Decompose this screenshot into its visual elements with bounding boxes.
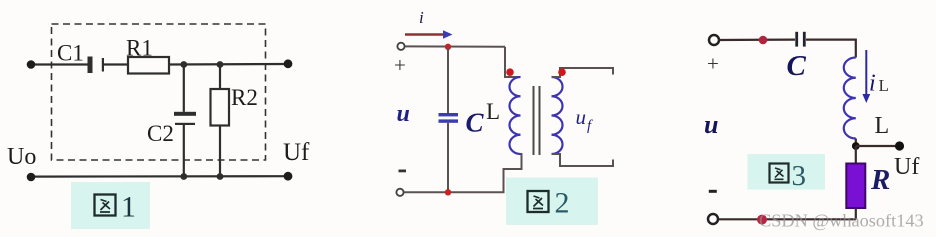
terminal bottom-left [27, 173, 36, 182]
resistor R fig3 [846, 164, 865, 209]
inductor L fig3 [844, 58, 856, 139]
label uf secondary [576, 105, 594, 134]
current arrow i [405, 30, 453, 38]
svg-text:Uf: Uf [283, 139, 310, 166]
caption glyph tu3 [770, 164, 789, 183]
wire C2 branch upper [183, 65, 185, 112]
svg-text:1: 1 [121, 191, 136, 224]
current arrow iL [862, 50, 870, 103]
svg-text:C2: C2 [147, 121, 174, 146]
svg-text:f: f [587, 118, 593, 134]
polarity dot primary (red) [506, 68, 514, 76]
wire secondary bottom [552, 154, 614, 166]
svg-text:+: + [394, 53, 406, 77]
caption box figure 2 [506, 178, 598, 226]
svg-text:u: u [704, 110, 718, 139]
label iL [869, 71, 889, 97]
svg-text:i: i [869, 71, 876, 97]
terminal circle bottom-left fig2 [396, 189, 403, 196]
wire top-right corner down to primary [505, 47, 521, 77]
node top (red) fig3 [759, 36, 768, 45]
wire top rail fig2 [405, 45, 505, 47]
capacitor C1 [88, 57, 105, 74]
wire bottom rail fig3 [718, 218, 856, 220]
wire resistor to bottom rail [855, 208, 857, 219]
terminal circle bottom-left fig3 [708, 214, 718, 224]
transformer core [534, 86, 540, 155]
node capacitor top (red) [445, 44, 451, 50]
node capacitor bottom (red) [445, 189, 451, 195]
capacitor C fig2 [439, 113, 459, 123]
wire secondary top [552, 68, 614, 77]
svg-text:Uo: Uo [7, 144, 36, 170]
node C2 bottom junction [180, 173, 187, 180]
node L-R junction [852, 142, 860, 150]
caption box figure 3 [748, 154, 826, 190]
svg-text:u: u [397, 101, 410, 127]
caption glyph tu1 [95, 195, 116, 216]
label minus fig3 [709, 190, 717, 193]
secondary winding [552, 77, 563, 154]
svg-text:L: L [875, 113, 890, 139]
wire capacitor branch upper fig2 [447, 47, 449, 113]
node C2 top junction [180, 61, 187, 68]
svg-text:Uf: Uf [894, 154, 919, 180]
wire R2 branch lower [219, 126, 221, 177]
label minus fig2 [399, 170, 407, 173]
wire R2 branch upper [219, 65, 221, 90]
wire C1 to R1 [104, 63, 128, 65]
terminal circle top-left fig3 [709, 35, 719, 45]
svg-text:+: + [707, 52, 719, 76]
primary winding L [509, 77, 520, 154]
wire top rail left fig3 [720, 38, 796, 41]
terminal top-left [27, 60, 36, 69]
node bottom (red) fig3 [757, 215, 767, 225]
node R2 bottom junction [217, 173, 224, 180]
svg-text:L: L [486, 99, 500, 124]
svg-text:3: 3 [792, 160, 807, 192]
wire bottom rail fig2 [404, 191, 505, 193]
svg-text:2: 2 [555, 187, 570, 220]
wire primary bottom to bottom rail [504, 154, 522, 192]
svg-text:u: u [576, 105, 587, 129]
wire node to resistor [855, 146, 857, 164]
wire bottom rail [31, 175, 288, 178]
terminal circle top-left fig2 [397, 43, 404, 50]
capacitor C fig3 [795, 32, 805, 47]
resistor R1 [128, 57, 169, 74]
svg-text:CSDN @whaosoft143: CSDN @whaosoft143 [759, 211, 924, 231]
svg-text:R1: R1 [126, 36, 153, 61]
wire inductor to node [855, 139, 857, 147]
svg-text:C1: C1 [57, 41, 84, 66]
wire R1 to output terminal [169, 63, 288, 66]
caption glyph tu2 [528, 191, 549, 212]
svg-text:L: L [879, 76, 889, 95]
resistor R2 [211, 89, 230, 126]
svg-text:C: C [787, 50, 807, 82]
wire capacitor branch lower fig2 [447, 123, 449, 193]
wire to Uf terminal [856, 145, 899, 147]
wire top rail right fig3 [806, 40, 856, 58]
terminal top-right [284, 59, 293, 68]
wire C2 branch lower [183, 124, 185, 177]
terminal bottom-right [284, 172, 293, 181]
svg-text:C: C [466, 108, 485, 138]
svg-text:R: R [870, 164, 890, 196]
caption box figure 1 [71, 182, 150, 229]
capacitor C2 [174, 112, 196, 125]
node R2 top junction [217, 61, 224, 68]
feedback network dashed box [52, 24, 266, 160]
svg-text:R2: R2 [231, 85, 258, 110]
wire top-left to C1 [31, 63, 88, 65]
polarity dot secondary (red) [558, 68, 566, 76]
svg-text:i: i [419, 8, 424, 27]
terminal Uf dot [895, 141, 904, 150]
